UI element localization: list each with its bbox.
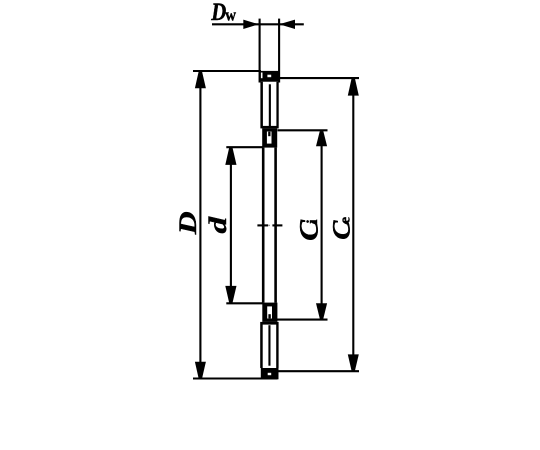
extension line Ce bottom	[278, 370, 360, 372]
centerline axis dot	[269, 224, 270, 226]
svg-text:d: d	[205, 215, 232, 233]
outer washer rim bottom (filled band)	[261, 368, 279, 379]
dimension line d	[230, 149, 232, 302]
roller top interior left	[263, 82, 277, 126]
extension line d top	[226, 146, 263, 148]
dimension line Ce	[352, 80, 354, 370]
arrowhead Ci top	[316, 131, 327, 146]
svg-text:D: D	[210, 0, 226, 25]
svg-text:w: w	[225, 7, 236, 25]
roller top axis line	[269, 84, 271, 126]
roller bottom interior left	[263, 325, 277, 368]
dimension line D	[199, 73, 201, 377]
svg-text:D: D	[175, 211, 202, 235]
cage rib bottom (neck)	[262, 303, 277, 322]
washer rim top white slot	[267, 75, 271, 78]
cage rib bottom inner dash	[268, 314, 270, 318]
cage rib top inner dash	[268, 132, 270, 137]
dimension line Ci	[321, 132, 323, 318]
arrowhead Dw left	[243, 20, 258, 29]
arrowhead d bottom	[225, 286, 236, 303]
arrowhead Ce bottom	[348, 354, 359, 370]
extension line Dw left	[259, 19, 261, 83]
washer rim bottom white slot	[268, 373, 272, 375]
needle roller top (outline)	[260, 82, 278, 129]
sleeve wall right	[274, 148, 277, 303]
roller bottom axis line	[268, 325, 270, 366]
centerline axis left dash	[257, 224, 268, 226]
centerline axis right dash	[272, 224, 282, 226]
extension line d bottom	[226, 302, 263, 304]
extension line Ce top	[278, 77, 359, 79]
svg-text:i: i	[305, 219, 321, 223]
extension line Ci top	[278, 129, 328, 131]
arrowhead D top	[195, 72, 206, 89]
cage rib bottom white slit	[267, 306, 272, 318]
arrowhead Ci bottom	[316, 303, 327, 319]
arrowhead d top	[225, 148, 236, 165]
washer rim top left white sliver	[261, 73, 263, 79]
cage rib top white slit	[267, 132, 272, 144]
dimension line Dw	[212, 23, 304, 25]
sleeve wall left	[262, 148, 265, 303]
arrowhead Dw right	[279, 20, 295, 29]
cage rib top (neck)	[262, 128, 277, 147]
extension line D bottom	[193, 377, 278, 379]
outer washer rim top (filled band)	[260, 71, 278, 82]
needle roller bottom (outline)	[260, 322, 278, 368]
arrowhead D bottom	[195, 362, 206, 379]
extension line Ci bottom	[277, 319, 328, 321]
arrowhead Ce top	[348, 79, 359, 96]
svg-text:e: e	[338, 217, 354, 224]
extension line D top	[193, 70, 261, 72]
extension line Dw right	[278, 19, 280, 83]
